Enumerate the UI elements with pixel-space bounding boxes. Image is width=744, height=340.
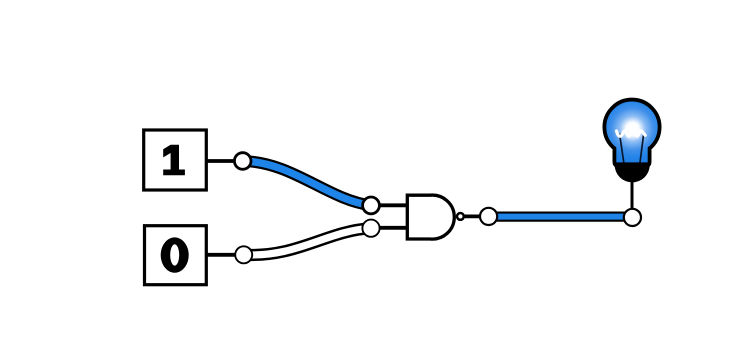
wire: SW2 stub xyxy=(207,253,238,257)
node: gate output terminal xyxy=(480,208,497,225)
bulb lead wire xyxy=(631,176,634,210)
node: gate input A terminal xyxy=(363,197,380,214)
digit 0 label xyxy=(161,237,189,272)
filament support wire left xyxy=(620,134,625,165)
filament support wire right xyxy=(640,133,644,164)
NAND gate U1 inversion bubble xyxy=(457,213,464,220)
wire: SW1 to gate input A (active, blue) xyxy=(243,161,371,205)
node: bulb terminal xyxy=(624,209,641,226)
NAND gate U1 body xyxy=(407,195,454,239)
wire: SW1 stub xyxy=(207,159,237,163)
wire: SW2 to gate input B (inactive, white) xyxy=(244,228,371,255)
switch SW1 (input 1) box xyxy=(144,130,207,190)
node: SW1 output terminal xyxy=(234,153,251,170)
switch SW2 (input 0) box xyxy=(145,226,207,285)
digit 1 label xyxy=(163,145,185,176)
wire: gate output stub xyxy=(462,214,489,218)
node: SW2 output terminal xyxy=(235,246,252,263)
wire: gate input pin A stub xyxy=(371,203,407,207)
light bulb L1 glass xyxy=(604,100,659,166)
light bulb L1 socket base xyxy=(615,162,650,182)
filament zigzag xyxy=(617,131,646,136)
wire: gate output to bulb (active, blue) xyxy=(489,212,633,222)
wire: gate input pin B stub xyxy=(371,226,407,230)
node: gate input B terminal xyxy=(362,220,379,237)
